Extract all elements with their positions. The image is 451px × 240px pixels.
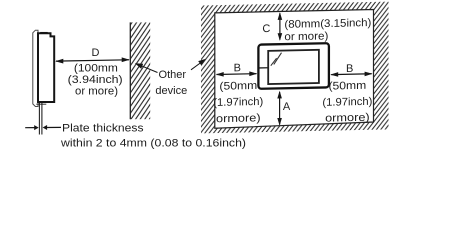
right diagram: enclosure with clearances (sheared slightly as in scan)	[201, 2, 389, 134]
device body	[38, 33, 54, 102]
body top ridge	[40, 32, 48, 34]
dimension B arrow left	[217, 73, 257, 76]
svg-text:within 2 to 4mm (0.08 to 0.16i: within 2 to 4mm (0.08 to 0.16inch)	[60, 137, 246, 149]
svg-text:device: device	[155, 85, 187, 97]
dimension D arrow	[56, 60, 129, 61]
svg-text:(1.97inch): (1.97inch)	[322, 96, 372, 109]
dimension A arrow	[279, 92, 281, 125]
svg-text:Other: Other	[159, 69, 187, 81]
bezel tick	[260, 67, 269, 69]
dimension B arrow right	[331, 73, 371, 76]
svg-text:(50mm: (50mm	[328, 80, 366, 93]
device outer case	[258, 43, 329, 89]
plate thickness left arrow	[25, 127, 34, 129]
svg-text:(80mm(3.15inch): (80mm(3.15inch)	[284, 17, 371, 31]
device front bezel	[33, 30, 38, 106]
hatched wall (other device)	[130, 22, 150, 119]
svg-text:ormore): ormore)	[216, 112, 261, 125]
svg-text:C: C	[262, 23, 270, 35]
hatched enclosure band	[201, 2, 389, 134]
svg-text:B: B	[234, 62, 241, 74]
plate thickness right arrow	[47, 126, 61, 128]
svg-text:(100mm: (100mm	[74, 62, 118, 74]
svg-text:(1.97inch): (1.97inch)	[213, 96, 263, 109]
enclosure inner wall	[215, 10, 374, 129]
svg-text:ormore): ormore)	[325, 112, 370, 125]
mounting plate lower section	[38, 103, 40, 135]
screen glare marks	[271, 58, 277, 66]
svg-text:B: B	[346, 63, 353, 75]
svg-text:or more): or more)	[75, 86, 118, 98]
device screen	[268, 50, 319, 84]
svg-text:or more): or more)	[284, 30, 328, 43]
svg-text:Plate thickness: Plate thickness	[62, 122, 144, 134]
pointer arrow to right enclosure	[191, 62, 202, 70]
svg-text:D: D	[92, 47, 100, 59]
pointer arrow to left wall	[140, 65, 158, 72]
body bottom flange	[36, 103, 46, 105]
svg-text:(3.94inch): (3.94inch)	[68, 74, 123, 86]
svg-text:(50mm: (50mm	[219, 80, 257, 93]
svg-text:A: A	[283, 101, 291, 113]
dimension C arrow	[279, 13, 281, 39]
